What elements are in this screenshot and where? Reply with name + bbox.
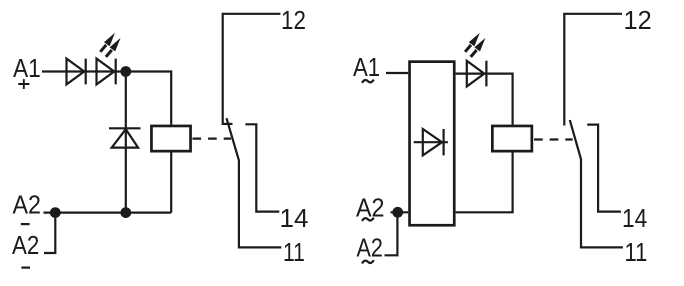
LED emission arrow 2 (right) [471, 38, 486, 57]
wire contact 12 terminal (right) [564, 14, 622, 126]
wire node down through suppressor diode [125, 72, 127, 213]
svg-text:12: 12 [624, 5, 652, 35]
wire node to coil top [126, 72, 171, 125]
wire contact 12 terminal [223, 14, 281, 124]
minus polarity sign under second A2 [21, 267, 30, 269]
tilde AC sign under right A1 [362, 80, 374, 83]
relay coil [151, 126, 190, 151]
LED emission arrow 1 (right) [465, 33, 480, 52]
junction dot A2 terminal [50, 207, 61, 218]
LED emission arrow 1 [100, 33, 115, 52]
wire second A2 up to rail [44, 213, 55, 253]
svg-text:12: 12 [281, 5, 306, 35]
svg-text:A1: A1 [13, 53, 41, 83]
relay coil (right) [492, 126, 531, 151]
svg-text:A2: A2 [357, 233, 383, 263]
svg-text:14: 14 [280, 203, 309, 233]
wire coil bottom lead [170, 153, 172, 213]
plus polarity sign under A1 [18, 79, 29, 89]
junction dot suppressor branch [120, 207, 131, 218]
NO fixed contact to 14 [245, 124, 279, 211]
NC fixed contact tick [222, 123, 233, 125]
LED right (indicator) [467, 61, 487, 87]
wire rectifier top to coil (through LED) [456, 74, 513, 125]
svg-text:A2: A2 [12, 230, 39, 260]
svg-text:A2: A2 [356, 193, 385, 223]
LED D2 (indicator) [97, 59, 116, 85]
svg-text:A1: A1 [353, 52, 380, 82]
rectifier internal diode [414, 129, 448, 155]
junction dot right A2 [392, 207, 403, 218]
minus polarity sign under first A2 [21, 223, 30, 225]
contact armature (right, common to 11) [570, 120, 623, 247]
series diode D1 [67, 59, 86, 85]
svg-text:A2: A2 [13, 189, 42, 219]
wire right second A2 up to junction [385, 212, 398, 255]
svg-text:11: 11 [625, 237, 648, 267]
wire A2 bottom rail [44, 212, 172, 214]
wire right A2 lead [391, 211, 409, 213]
wire right A1 lead [386, 72, 408, 74]
wire A1 lead [42, 70, 67, 72]
NO fixed contact to 14 (right) [587, 125, 621, 212]
LED emission arrow 2 [106, 38, 121, 57]
bridge rectifier block [410, 62, 455, 226]
suppressor diode (freewheeling, cathode up) [109, 128, 141, 147]
wire coil bottom to rectifier (right) [456, 153, 513, 213]
tilde AC sign under right second A2 [362, 260, 374, 263]
contact armature (common, to 11) [227, 118, 282, 247]
mechanical link (dashed) coil to contact (right) [534, 138, 573, 140]
svg-text:11: 11 [283, 237, 305, 267]
tilde AC sign under right first A2 [362, 218, 374, 221]
mechanical link (dashed) coil to contact [193, 138, 232, 140]
wire through series diodes to node [67, 70, 126, 72]
node junction dot at A1 rail [120, 66, 131, 77]
svg-text:14: 14 [622, 203, 647, 233]
